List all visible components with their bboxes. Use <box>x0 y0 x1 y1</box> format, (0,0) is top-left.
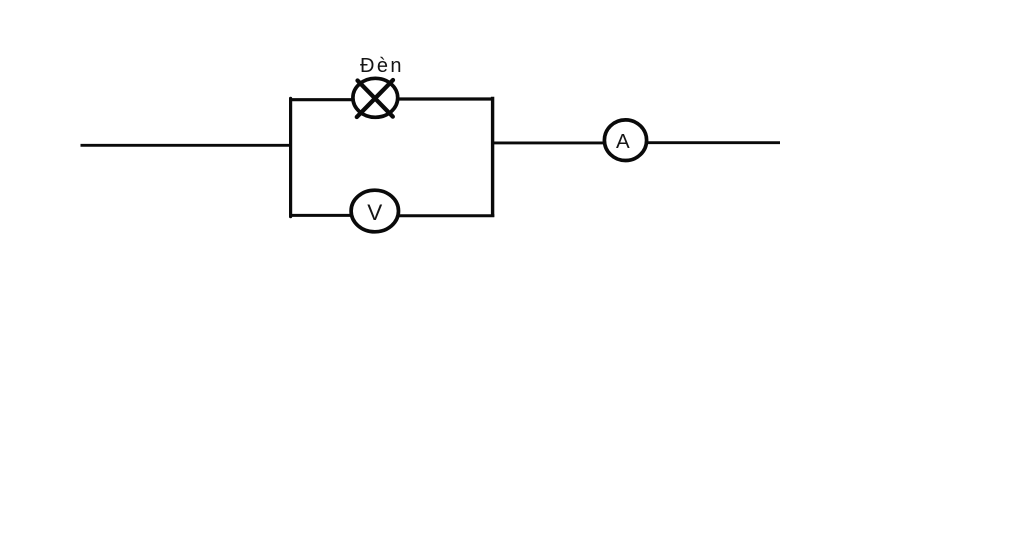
wire: middle lead to ammeter <box>491 141 604 144</box>
wire: bottom branch right segment <box>399 214 495 217</box>
svg-text:A: A <box>616 130 630 153</box>
lamp Đèn (X cross stroke 1) <box>358 81 393 117</box>
wire: top branch left segment <box>289 98 353 101</box>
wire: bottom branch left segment <box>289 214 352 217</box>
ammeter A (circle) <box>604 120 646 161</box>
lamp Đèn (circle) <box>353 78 398 117</box>
wire: top branch right segment <box>398 97 495 100</box>
wire: right lead <box>647 141 780 144</box>
svg-text:Đèn: Đèn <box>360 55 404 77</box>
lamp Đèn (X cross stroke 2) <box>357 80 393 117</box>
node: right junction vertical bus <box>491 97 494 217</box>
node: left junction vertical bus <box>289 98 292 216</box>
wire: left lead <box>81 144 293 147</box>
svg-text:V: V <box>367 200 382 225</box>
voltmeter V (circle) <box>351 190 398 232</box>
